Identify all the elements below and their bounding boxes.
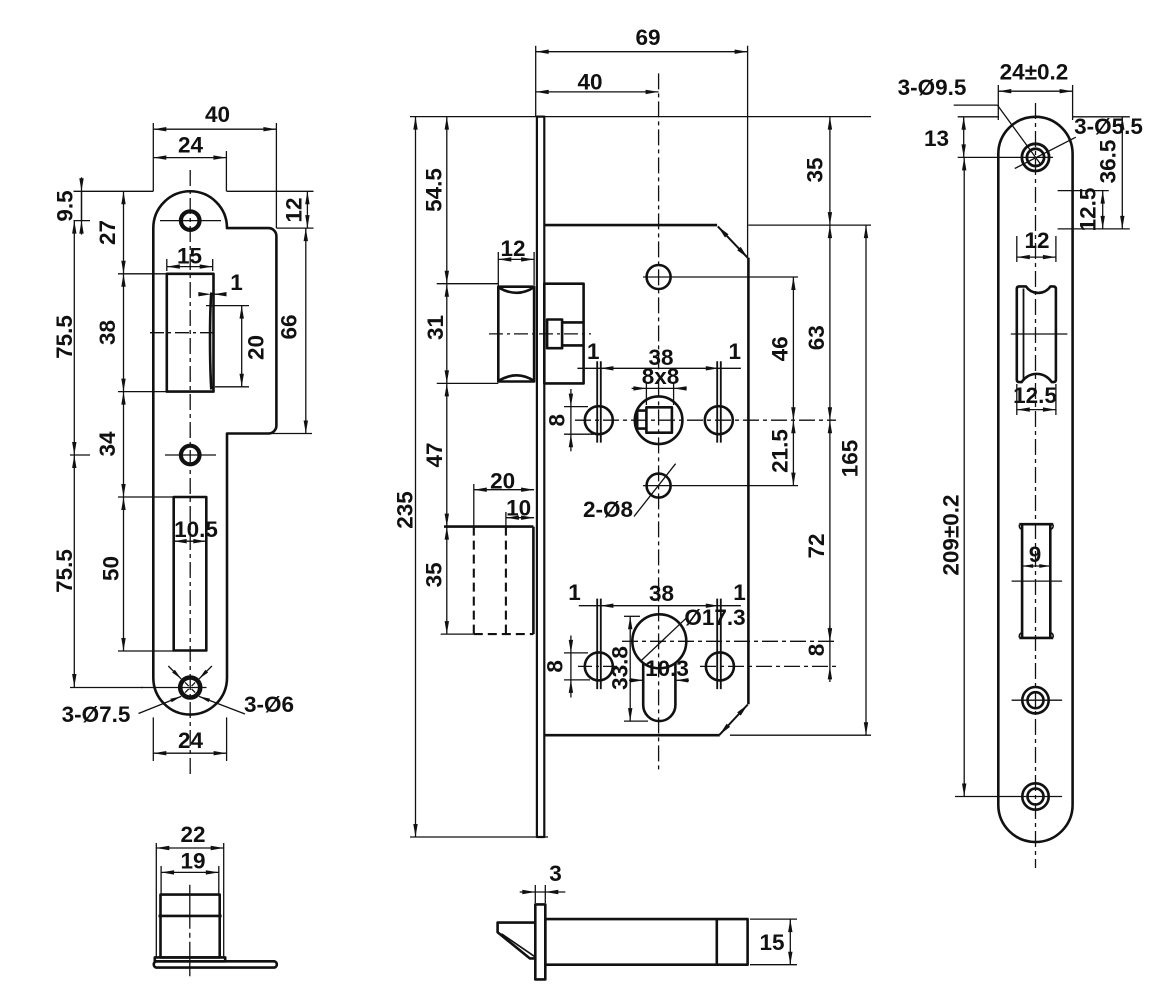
svg-text:12: 12 — [500, 236, 525, 261]
spindle centerline — [575, 419, 836, 421]
svg-text:12: 12 — [282, 197, 307, 222]
svg-text:35: 35 — [803, 157, 828, 182]
dim 75.5 upper — [73, 221, 75, 455]
follower hole — [635, 396, 683, 444]
gauge pair upper left — [596, 361, 598, 442]
dim 15 — [166, 259, 168, 271]
dim 8 lower left — [564, 652, 588, 654]
countersunk screw hole top — [1022, 144, 1049, 171]
svg-text:36.5: 36.5 — [1096, 140, 1121, 184]
svg-text:3-Ø6: 3-Ø6 — [244, 692, 294, 717]
dim 10 pocket — [505, 512, 507, 527]
dim 31 — [446, 284, 448, 384]
gauge pair lower left — [596, 599, 598, 690]
dim 3 — [534, 885, 536, 903]
screw hole bottom — [1022, 783, 1048, 809]
svg-text:3-Ø7.5: 3-Ø7.5 — [62, 702, 131, 727]
lock case outline — [544, 224, 717, 227]
face plate outline — [998, 117, 1072, 842]
slot centerline tick — [1012, 580, 1063, 582]
latch lip curve — [210, 293, 211, 390]
svg-text:72: 72 — [804, 533, 829, 558]
dim 20 pocket — [473, 484, 475, 527]
svg-text:3-Ø9.5: 3-Ø9.5 — [898, 75, 967, 100]
extension case top right — [748, 224, 871, 226]
svg-text:22: 22 — [180, 822, 205, 847]
hidden pocket dashed — [444, 525, 533, 528]
svg-text:12.5: 12.5 — [1013, 383, 1057, 408]
label 3-06 — [199, 696, 245, 714]
dim 12.5 upper — [1058, 190, 1109, 192]
svg-text:24: 24 — [178, 133, 204, 158]
svg-text:15: 15 — [177, 244, 202, 269]
dim 24 +-0.2 — [997, 85, 999, 120]
svg-text:10: 10 — [506, 496, 531, 521]
svg-text:54.5: 54.5 — [422, 168, 447, 212]
dim 72 — [829, 420, 831, 641]
spool centerline tick — [1011, 333, 1068, 335]
cylinder centerline — [622, 640, 838, 642]
svg-text:46: 46 — [767, 336, 792, 361]
dim 8 upper left — [564, 406, 588, 408]
dim 24 bottom — [152, 717, 154, 761]
svg-text:24: 24 — [178, 728, 204, 753]
hub hole upper right — [705, 406, 733, 434]
chamfer bottom right — [720, 705, 748, 735]
svg-text:8: 8 — [543, 660, 568, 673]
svg-text:1: 1 — [587, 339, 600, 364]
svg-text:38: 38 — [649, 581, 674, 606]
lower holes centerline — [578, 665, 626, 667]
svg-text:27: 27 — [95, 220, 120, 245]
latch body — [544, 284, 583, 384]
cylinder profile — [632, 614, 686, 668]
svg-text:1: 1 — [230, 270, 243, 295]
hub hole lower right — [706, 652, 734, 680]
dim 13 — [958, 116, 999, 118]
dim 8 right — [829, 626, 831, 682]
dim 1-38-1 upper — [577, 367, 741, 369]
svg-text:3: 3 — [549, 861, 562, 886]
svg-text:12: 12 — [1024, 228, 1049, 253]
latch opening box — [167, 274, 214, 392]
svg-text:3-Ø5.5: 3-Ø5.5 — [1074, 114, 1143, 139]
svg-text:47: 47 — [422, 442, 447, 467]
svg-text:21.5: 21.5 — [767, 429, 792, 473]
screw hole middle — [181, 446, 200, 465]
svg-text:Ø17.3: Ø17.3 — [684, 605, 745, 630]
dim 19 — [160, 866, 162, 895]
lower slot — [174, 497, 207, 651]
svg-text:10.5: 10.5 — [174, 517, 218, 542]
svg-text:12.5: 12.5 — [1076, 188, 1101, 232]
gauge pair lower right — [716, 599, 718, 690]
extension top — [410, 116, 537, 118]
dim 21.5 — [792, 420, 794, 485]
svg-text:1: 1 — [729, 339, 742, 364]
dim 34 — [123, 392, 125, 497]
dim 1-38-1 lower — [579, 605, 741, 607]
svg-text:209±0.2: 209±0.2 — [939, 494, 964, 575]
dim 46 — [792, 277, 794, 420]
dim 12 right — [306, 191, 308, 228]
plate centerline — [189, 170, 191, 777]
faceplate strip — [537, 117, 544, 837]
deadbolt slot — [1019, 523, 1053, 526]
svg-text:34: 34 — [95, 431, 120, 457]
gauge pair upper right — [716, 361, 718, 442]
box centerline — [150, 332, 216, 334]
svg-text:31: 31 — [423, 315, 448, 340]
svg-text:2-Ø8: 2-Ø8 — [583, 497, 633, 522]
latch plate section — [535, 904, 545, 979]
dim 27 — [123, 191, 125, 273]
latch bevel head — [498, 923, 536, 959]
label 3-09.5 — [954, 104, 998, 106]
dim 33.8 — [624, 615, 640, 617]
svg-text:8: 8 — [804, 644, 829, 657]
svg-text:8: 8 — [545, 414, 570, 427]
svg-text:10.3: 10.3 — [645, 656, 689, 681]
chamfer top right — [718, 226, 748, 258]
dim 69 — [535, 46, 537, 117]
svg-text:66: 66 — [277, 314, 302, 339]
strike plate outline — [153, 191, 276, 714]
dim 50 slot — [123, 497, 125, 651]
fixing hole 2-08 — [647, 474, 671, 498]
dim 40 top — [152, 123, 154, 191]
svg-text:35: 35 — [422, 562, 447, 587]
dim 35 right — [829, 117, 831, 226]
dim 35 pocket — [446, 527, 448, 635]
extension lines top — [74, 190, 154, 192]
top fixing hole — [647, 265, 671, 289]
label 3-05.5 — [1015, 137, 1076, 168]
latch centerline — [489, 333, 591, 335]
dim 165 — [865, 225, 867, 735]
dim 24 top — [225, 151, 227, 191]
dim 235 — [415, 117, 417, 837]
dim 20 lip — [206, 305, 249, 307]
svg-text:50: 50 — [99, 556, 124, 581]
dim 9.5 — [74, 220, 91, 222]
svg-text:24±0.2: 24±0.2 — [1000, 60, 1069, 85]
box centerline — [189, 885, 191, 976]
dim 63 — [829, 225, 831, 420]
dim 40 — [536, 91, 659, 93]
extension case bottom right — [730, 734, 871, 736]
dim 38 — [123, 274, 125, 392]
svg-text:15: 15 — [759, 930, 784, 955]
svg-text:75.5: 75.5 — [52, 315, 77, 359]
base step — [155, 957, 225, 961]
svg-text:75.5: 75.5 — [52, 549, 77, 593]
hub hole lower left — [585, 652, 613, 680]
dim 75.5 lower — [73, 455, 75, 687]
latch spool cutout — [1017, 286, 1056, 382]
svg-text:9.5: 9.5 — [53, 190, 78, 221]
screw hole bottom countersunk — [180, 678, 200, 698]
dim 12 spool — [1016, 236, 1018, 262]
svg-text:235: 235 — [393, 491, 418, 529]
svg-text:40: 40 — [205, 102, 230, 127]
svg-text:40: 40 — [577, 70, 602, 95]
box body — [161, 895, 220, 958]
dim 22 — [155, 843, 157, 958]
main centerline vertical — [658, 73, 660, 772]
latch body side — [545, 919, 747, 965]
svg-text:1: 1 — [733, 580, 746, 605]
dim 54.5 — [446, 117, 448, 284]
svg-text:33.8: 33.8 — [608, 646, 633, 690]
svg-text:13: 13 — [924, 126, 949, 151]
hub hole upper left — [585, 406, 613, 434]
svg-text:63: 63 — [804, 325, 829, 350]
flange — [154, 961, 277, 967]
dim 66 right — [305, 228, 307, 433]
svg-text:9: 9 — [1029, 542, 1042, 567]
svg-text:165: 165 — [838, 440, 863, 478]
dim 209 +-0.2 — [955, 796, 1012, 798]
svg-text:1: 1 — [568, 580, 581, 605]
svg-text:69: 69 — [635, 25, 660, 50]
spindle square 8x8 — [646, 407, 672, 432]
dim 12 latch — [497, 252, 499, 287]
dim 36.5 — [1073, 116, 1130, 118]
dim 1 lip — [214, 293, 227, 295]
screw hole top — [181, 211, 200, 230]
spool inner tab line — [1023, 289, 1025, 381]
label 017.3 — [640, 618, 686, 661]
svg-text:20: 20 — [490, 469, 515, 494]
svg-text:20: 20 — [244, 335, 269, 360]
dim 47 — [446, 383, 448, 526]
svg-text:38: 38 — [95, 320, 120, 345]
plate centerline — [1035, 103, 1037, 868]
screw hole middle — [1022, 687, 1048, 713]
dim 15 — [750, 918, 797, 920]
label 3-07.5 — [139, 696, 182, 713]
extension bottom faceplate — [410, 836, 548, 838]
svg-text:19: 19 — [180, 849, 205, 874]
dim 12.5 lower — [1016, 384, 1018, 415]
latch head — [498, 287, 534, 382]
